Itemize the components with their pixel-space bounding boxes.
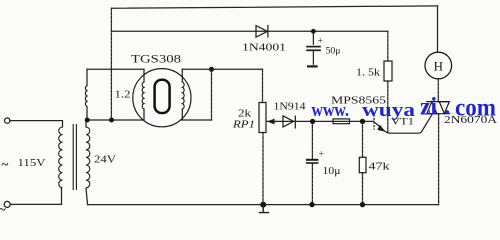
resistor R1 base resistor <box>333 119 350 124</box>
svg-text:1. 5k: 1. 5k <box>356 68 381 79</box>
wire R2 leads <box>387 31 389 133</box>
svg-text:115V: 115V <box>18 157 46 169</box>
wire bottom rail <box>88 204 439 206</box>
wire RP1 top lead <box>262 69 264 102</box>
gas sensor U1 TGS308 circle <box>133 69 191 127</box>
svg-text:50μ: 50μ <box>326 47 341 57</box>
ground symbol <box>259 205 270 213</box>
diode D1 1N4001 <box>256 25 268 38</box>
wire RP1 bottom lead <box>262 133 264 205</box>
wire coil L1 stubs <box>86 69 88 120</box>
wire secondary bottom lead <box>86 189 88 205</box>
wire H drop <box>437 6 439 52</box>
svg-text:1.2: 1.2 <box>115 90 131 101</box>
node sensor top right <box>209 67 214 72</box>
potentiometer RP1 wiper arrow <box>269 121 277 123</box>
wire sensor top right <box>182 68 262 70</box>
watermark www.wuyazi.com <box>312 93 497 122</box>
wire triac to bottom <box>438 114 440 205</box>
capacitor C1 50u <box>306 47 321 67</box>
wire sensor top left <box>87 68 144 70</box>
node left vertical join <box>109 118 114 123</box>
svg-text:wuya: wuya <box>362 100 416 121</box>
terminal bottom-left <box>4 201 10 207</box>
wire top rail <box>111 6 437 8</box>
wire sensor bottom left <box>86 119 144 121</box>
svg-text:+: + <box>318 37 323 47</box>
wire middle rail <box>267 120 374 122</box>
svg-text:2k: 2k <box>238 109 252 120</box>
transformer T1 primary coil <box>59 127 63 188</box>
wire C1 leads <box>312 31 314 64</box>
svg-text:+: + <box>319 150 324 160</box>
svg-text:~: ~ <box>0 202 6 217</box>
node C1 top <box>311 29 316 34</box>
wire R3 leads <box>362 121 364 204</box>
svg-text:1N4001: 1N4001 <box>242 42 286 54</box>
triac VT2 2N6070A <box>426 102 450 114</box>
wire sensor right vertical <box>211 69 213 120</box>
wire inner coil stubs <box>144 69 182 120</box>
wire primary top lead <box>10 121 63 127</box>
wire H to triac <box>437 79 439 102</box>
sensor right heater coil <box>182 82 184 109</box>
svg-text:47k: 47k <box>369 162 391 173</box>
diode D2 1N914 <box>283 116 295 129</box>
node R3 top <box>360 119 365 124</box>
svg-text:zi: zi <box>420 94 437 121</box>
svg-text:com: com <box>455 95 496 122</box>
wire sensor bottom right <box>182 119 212 121</box>
transistor VT1 emitter arrow <box>377 125 385 132</box>
node C2 top <box>310 119 315 124</box>
svg-text:.: . <box>444 93 450 120</box>
svg-text:TGS308: TGS308 <box>131 54 181 66</box>
resistor R2 1.5k <box>384 61 392 81</box>
capacitor C2 10u <box>306 160 319 163</box>
sensor left heater coil <box>142 82 144 109</box>
resistor R3 47k <box>359 157 366 172</box>
node C2 bottom <box>309 202 314 207</box>
terminal top-left <box>5 118 10 123</box>
wire second rail <box>111 30 387 32</box>
sensor element pill <box>155 80 170 113</box>
transformer T1 secondary coil <box>86 127 90 188</box>
svg-text:1N914: 1N914 <box>274 102 306 113</box>
wire left vertical <box>110 8 112 120</box>
transformer T1 core <box>73 124 76 190</box>
potentiometer RP1 body <box>259 103 266 133</box>
wire secondary top lead <box>85 120 87 127</box>
svg-text:www.: www. <box>312 100 350 121</box>
node secondary-top <box>85 118 90 123</box>
wire primary bottom lead <box>10 189 61 205</box>
wire C2 leads <box>311 121 313 204</box>
svg-text:H: H <box>434 59 443 74</box>
node R3 bottom <box>360 202 365 207</box>
svg-text:~: ~ <box>2 157 9 172</box>
svg-text:RP1: RP1 <box>232 120 255 131</box>
node RP1 bottom <box>260 202 266 208</box>
svg-text:24V: 24V <box>94 154 116 166</box>
inductor L1 (1.2 coil) <box>85 86 87 107</box>
svg-text:10μ: 10μ <box>323 166 341 177</box>
transistor VT1 <box>374 114 432 133</box>
heater lamp H <box>425 52 452 79</box>
